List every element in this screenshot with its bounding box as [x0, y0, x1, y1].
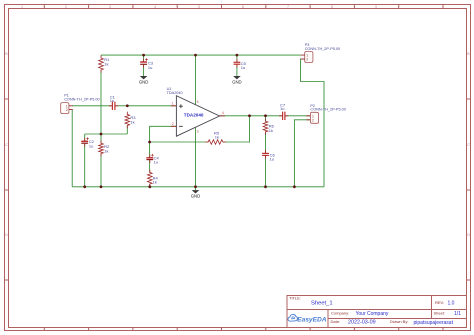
svg-text:CONN-TH_2P-P5.00: CONN-TH_2P-P5.00 — [310, 108, 345, 112]
svg-text:REV:: REV: — [435, 300, 444, 305]
svg-text:3: 3 — [109, 5, 111, 9]
capacitor C4 polarized — [146, 154, 159, 165]
junction on Vcc rail at op-amp pin5 — [194, 54, 197, 57]
svg-text:1u: 1u — [280, 106, 284, 111]
capacitor C5 — [234, 59, 247, 70]
svg-text:EasyEDA: EasyEDA — [297, 317, 327, 324]
connector P1 — [61, 94, 100, 114]
title block — [287, 296, 467, 328]
svg-text:Sheet_1: Sheet_1 — [311, 301, 333, 307]
junction ground rail at R4 — [148, 185, 151, 188]
wire: C3 to ground — [143, 65, 145, 76]
svg-text:TDA2040: TDA2040 — [167, 91, 183, 95]
svg-text:D: D — [5, 233, 8, 237]
wire: C5 stub — [236, 55, 238, 62]
svg-text:1k: 1k — [130, 119, 134, 124]
wire: P3 pin2 to ground rail — [301, 59, 325, 187]
EasyEDA logo — [288, 314, 327, 323]
junction on Vcc rail at C5 — [236, 54, 239, 57]
svg-text:7: 7 — [287, 5, 289, 9]
frame zone labels — [5, 5, 470, 237]
svg-text:4: 4 — [154, 5, 156, 9]
svg-text:2: 2 — [172, 122, 174, 126]
wire: Vcc top rail — [101, 54, 301, 56]
wire: C7 to P2 pin1 — [286, 115, 311, 117]
svg-text:1: 1 — [21, 5, 23, 9]
capacitor C6 — [262, 150, 275, 162]
svg-text:2: 2 — [312, 118, 314, 122]
wire: P1 pin1 to C1 — [72, 105, 111, 107]
wire: ground stub at bottom rail — [195, 187, 197, 190]
connector P2 — [306, 104, 345, 124]
resistor R1 — [99, 55, 110, 73]
svg-text:CONN-TH_2P-P5.00: CONN-TH_2P-P5.00 — [64, 97, 99, 101]
capacitor C3 polarized — [140, 58, 154, 70]
svg-text:2: 2 — [306, 58, 308, 62]
svg-text:1.0: 1.0 — [448, 301, 455, 307]
wire: R3 bottom to bias node — [126, 126, 128, 135]
svg-text:1/1: 1/1 — [454, 311, 461, 317]
svg-text:9: 9 — [375, 5, 377, 9]
svg-text:TITLE:: TITLE: — [289, 295, 301, 300]
wire: C1 to op-amp noninverting input — [116, 105, 177, 107]
op-amp U1 TDA2040 — [167, 87, 225, 136]
capacitor C7 — [279, 102, 288, 120]
wire: op-amp output to C7 — [220, 115, 283, 117]
wire: C3 stub — [143, 55, 145, 61]
svg-text:1k: 1k — [269, 128, 273, 133]
wire: R2 branch — [100, 134, 102, 187]
junction at feedback node — [148, 141, 151, 144]
svg-text:C: C — [5, 143, 8, 147]
svg-text:8: 8 — [331, 5, 333, 9]
ground symbol at bottom rail — [191, 190, 201, 199]
junction at output feedback tap — [248, 114, 251, 117]
wire: feedback node to R5 — [150, 141, 209, 143]
wire: C2 branch — [84, 134, 86, 187]
wire: bias node horizontal — [85, 133, 128, 135]
title block texts — [289, 295, 461, 325]
junction ground rail at C2 — [83, 185, 86, 188]
svg-text:2: 2 — [65, 5, 67, 9]
svg-text:Date:: Date: — [331, 319, 341, 324]
resistor R2 — [99, 141, 110, 157]
junction ground rail at op-amp pin3 — [194, 185, 197, 188]
wire: C4 to R4 branch — [149, 142, 151, 187]
junction at input node R3 tap — [126, 104, 129, 107]
wire: ground bottom rail — [72, 186, 324, 188]
svg-text:2: 2 — [66, 108, 68, 112]
junction at output zobel tap — [264, 114, 267, 117]
svg-text:1u: 1u — [110, 98, 114, 103]
junction ground rail at R2 — [100, 185, 103, 188]
wire: C5 to ground — [236, 65, 238, 76]
ground symbol at C5 — [232, 76, 242, 85]
svg-text:1: 1 — [172, 102, 174, 106]
svg-text:Your Company: Your Company — [356, 311, 389, 317]
svg-text:1u: 1u — [241, 65, 245, 70]
wire: P2 pin2 to ground rail — [294, 120, 310, 187]
svg-text:Sheet:: Sheet: — [434, 310, 446, 315]
svg-text:1u: 1u — [154, 160, 158, 165]
wire: op-amp pin3 to ground rail — [195, 127, 197, 187]
svg-text:GND: GND — [232, 80, 242, 85]
junction at bias node — [100, 133, 103, 136]
svg-text:3: 3 — [197, 129, 199, 133]
svg-text:2022-03-09: 2022-03-09 — [348, 320, 376, 326]
resistor R4 — [148, 170, 159, 187]
svg-text:TDA2040: TDA2040 — [184, 112, 204, 117]
svg-text:1u: 1u — [148, 65, 152, 70]
wire: P1 pin2 down to ground rail — [71, 110, 73, 187]
junction on Vcc rail at C3 — [142, 54, 145, 57]
svg-text:1k: 1k — [104, 148, 108, 153]
capacitor C2 polarized — [81, 137, 94, 148]
resistor R3 — [125, 112, 136, 129]
wire: op-amp pin5 to Vcc rail — [195, 55, 197, 105]
resistor R5 — [205, 130, 225, 144]
svg-text:pipatsupajeerasat: pipatsupajeerasat — [414, 320, 454, 326]
svg-text:1k: 1k — [104, 61, 108, 66]
junction ground rail at P2 return — [293, 185, 296, 188]
svg-text:1k: 1k — [215, 135, 219, 140]
svg-text:6: 6 — [242, 5, 244, 9]
wire: R1 bottom to bias node — [100, 70, 102, 134]
svg-text:4: 4 — [222, 111, 224, 115]
ground symbol at C3 — [139, 76, 149, 85]
resistor R6 — [263, 119, 274, 135]
svg-text:Company:: Company: — [331, 310, 349, 315]
svg-text:Drawn By:: Drawn By: — [390, 319, 408, 324]
svg-text:CONN-TH_2P-P5.00: CONN-TH_2P-P5.00 — [305, 47, 340, 51]
svg-text:1u: 1u — [270, 157, 274, 162]
svg-text:1k: 1k — [153, 180, 157, 185]
wire: R5 to output tap — [223, 116, 250, 142]
junction ground rail at C6 — [264, 185, 267, 188]
svg-text:1u: 1u — [89, 143, 93, 148]
svg-text:C: C — [467, 143, 470, 147]
svg-text:D: D — [467, 233, 470, 237]
wire: inverting input to feedback node — [150, 126, 177, 142]
svg-text:5: 5 — [197, 100, 199, 104]
svg-text:GND: GND — [139, 80, 149, 85]
connector P3 — [301, 43, 340, 62]
capacitor C1 — [109, 94, 118, 110]
svg-text:5: 5 — [198, 5, 200, 9]
svg-text:GND: GND — [191, 194, 201, 199]
wire: R6 C6 zobel branch — [265, 116, 267, 187]
